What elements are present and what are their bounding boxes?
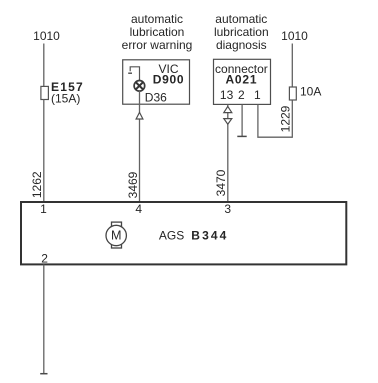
fuse 10A — [289, 85, 321, 100]
svg-text:lubrication: lubrication — [214, 25, 269, 39]
svg-text:1010: 1010 — [281, 29, 308, 43]
wire right supply to fuse 10A — [291, 44, 293, 88]
caption: automatic lubrication diagnosis — [214, 12, 269, 52]
svg-text:4: 4 — [135, 202, 142, 216]
svg-text:3470: 3470 — [214, 169, 228, 196]
connector A021 box — [214, 59, 271, 104]
wire D900 lamp to AGS pin 4, net 3469 — [139, 91, 141, 203]
caption: automatic lubrication error warning — [122, 12, 193, 52]
svg-text:10A: 10A — [300, 85, 321, 99]
svg-text:D36: D36 — [145, 90, 167, 104]
svg-text:13: 13 — [220, 88, 234, 102]
wire fuse E157 to AGS pin 1, net 1262 — [43, 100, 45, 203]
svg-text:diagnosis: diagnosis — [216, 38, 267, 52]
wire left supply to fuse E157 — [43, 44, 45, 88]
svg-text:automatic: automatic — [131, 12, 183, 26]
svg-text:automatic: automatic — [215, 12, 267, 26]
svg-text:1: 1 — [40, 202, 47, 216]
wire A021 pin 1 to fuse branch, net 1229 — [258, 105, 292, 138]
wire A021 pin 2 stub termination — [237, 105, 246, 137]
svg-text:D900: D900 — [153, 73, 185, 87]
svg-text:3469: 3469 — [126, 171, 140, 198]
svg-text:3: 3 — [224, 202, 231, 216]
svg-text:2: 2 — [238, 88, 245, 102]
svg-text:(15A): (15A) — [51, 91, 80, 105]
ECU AGS B344 box — [21, 202, 346, 264]
svg-text:2: 2 — [41, 252, 48, 266]
wire AGS pin 2 down — [43, 265, 45, 374]
wire fuse 10A down to corner — [291, 101, 293, 138]
svg-text:1229: 1229 — [279, 105, 293, 132]
connector arrow pair below A021 pin 13 — [224, 106, 232, 124]
svg-text:1: 1 — [254, 88, 261, 102]
svg-text:B344: B344 — [191, 229, 228, 243]
fuse E157 (15A) — [41, 80, 84, 106]
svg-text:1262: 1262 — [30, 171, 44, 198]
svg-text:1010: 1010 — [33, 29, 60, 43]
svg-text:AGS: AGS — [159, 229, 184, 243]
svg-text:A021: A021 — [225, 72, 257, 86]
svg-text:error warning: error warning — [122, 38, 193, 52]
connector arrow below D900 — [136, 112, 143, 119]
motor M symbol — [106, 222, 126, 248]
wire end terminal — [40, 373, 47, 375]
lamp feed hook wire inside D900 — [128, 67, 139, 81]
indicator lamp symbol in D900 — [134, 81, 145, 92]
wire A021 pin 13 to AGS pin 3, net 3470 — [227, 105, 229, 203]
svg-text:lubrication: lubrication — [130, 25, 185, 39]
svg-text:M: M — [111, 229, 122, 243]
VIC module D900 box — [123, 60, 190, 104]
